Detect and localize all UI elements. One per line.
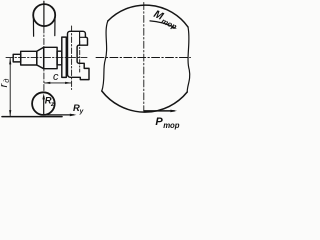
left dimension r line: [9, 58, 11, 115]
cutter vertical centerline (dash-dot) down to roller: [43, 27, 45, 92]
flange plate: [62, 37, 67, 77]
label Mtor: [151, 8, 180, 31]
force Ptor arrow: [144, 110, 174, 112]
workpiece surface line: [2, 116, 62, 118]
spindle taper section: [37, 47, 44, 68]
cutter disc left tangent line: [32, 17, 34, 36]
C-shaped bracket outline: [68, 31, 90, 79]
spindle horizontal centerline: [6, 57, 87, 59]
label r (rotated, left dimension): [0, 79, 11, 88]
workpiece top arc: [108, 5, 188, 27]
force Ry arrow (horizontal at contact point): [44, 114, 74, 116]
cutter disc right tangent line: [54, 17, 56, 36]
spindle end stub: [13, 54, 21, 62]
spindle neck: [57, 51, 62, 65]
cutter axis vertical line through disc: [43, 1, 45, 26]
workpiece bottom arc: [102, 91, 187, 112]
workpiece horizontal centerline: [96, 57, 191, 59]
bracket top boss internal edges: [80, 32, 86, 45]
left dimension top arrowhead: [9, 58, 11, 64]
bracket pivot vertical centerline (dash-dot): [79, 41, 81, 72]
left dimension bottom arrowhead: [9, 110, 11, 116]
bracket spine vertical centerline (dash-dot): [71, 26, 73, 90]
cutter disc front-view circle: [33, 4, 55, 26]
workpiece right break (wavy) line: [187, 27, 190, 92]
svg-text:Р: Р: [155, 116, 163, 128]
dimension c line with arrows: [44, 82, 71, 84]
torque Mtor curved arrow: [150, 21, 174, 27]
svg-text:y: y: [79, 108, 84, 115]
svg-text:c: c: [53, 71, 59, 83]
svg-text:тор: тор: [160, 16, 179, 31]
workpiece vertical centerline: [143, 3, 145, 111]
svg-text:тор: тор: [163, 121, 180, 130]
roller circle: [32, 92, 55, 115]
spindle large cylinder: [44, 47, 57, 68]
spindle second step cylinder: [21, 51, 37, 65]
workpiece left break (wavy) line: [102, 21, 108, 91]
svg-text:д: д: [2, 79, 11, 83]
force Rz arrow (vertical, inside roller): [43, 97, 45, 115]
